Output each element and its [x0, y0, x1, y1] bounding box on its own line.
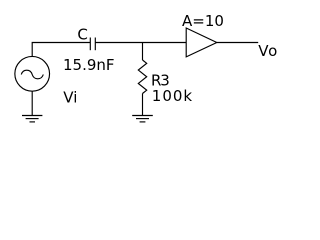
svg-text:100k: 100k — [152, 87, 193, 105]
node junction — [142, 43, 144, 61]
wire — [31, 91, 33, 115]
svg-text:Vi: Vi — [63, 88, 77, 106]
resistor R3 — [138, 60, 146, 94]
wire — [142, 94, 144, 116]
wire — [95, 42, 186, 44]
ground — [22, 116, 42, 122]
svg-text:C: C — [77, 26, 87, 44]
op-amp U1 — [186, 28, 217, 57]
ground — [132, 116, 153, 122]
wire — [217, 42, 258, 44]
voltage source V1 — [15, 56, 50, 91]
capacitor C1 — [90, 38, 95, 51]
svg-text:A=10: A=10 — [182, 12, 224, 30]
wire — [32, 43, 90, 57]
svg-text:Vo: Vo — [258, 42, 278, 60]
svg-text:15.9nF: 15.9nF — [63, 56, 115, 74]
